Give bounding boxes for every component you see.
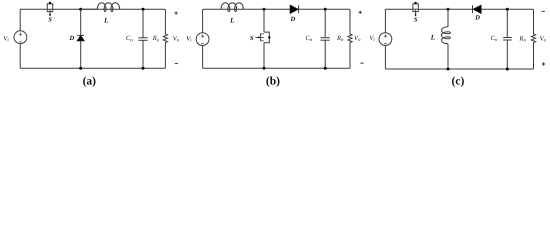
wire capacitor branch lower (b) xyxy=(324,40,326,68)
wire top rail (a) xyxy=(20,8,165,10)
wire diode branch lower (a) xyxy=(80,41,82,68)
node bottom of inductor branch (c) xyxy=(447,68,450,71)
capacitor Co (b) xyxy=(321,38,330,41)
wire right edge lower (a) xyxy=(164,43,166,69)
node junction top of capacitor (a) xyxy=(142,8,145,11)
diode D (a) xyxy=(77,35,84,40)
capacitor Co (a) xyxy=(138,38,147,41)
voltage source Vi (c) xyxy=(379,33,392,46)
wire inductor branch upper (c) xyxy=(447,9,449,27)
svg-text:S: S xyxy=(414,17,418,24)
node bottom of capacitor (a) xyxy=(142,67,145,70)
wire inductor branch lower (c) xyxy=(447,44,449,69)
voltage source Vi (b) xyxy=(196,33,209,46)
node bottom of capacitor (b) xyxy=(324,67,327,70)
label plus output (a) xyxy=(174,11,177,14)
mosfet S (c) xyxy=(412,2,419,17)
wire left branch lower (b) xyxy=(202,46,204,69)
diode D (b) xyxy=(290,5,298,13)
wire bottom rail (b) xyxy=(203,67,350,69)
wire right edge upper (c) xyxy=(533,9,535,34)
resistor Ro (c) xyxy=(531,34,535,43)
label minus output (a) xyxy=(175,63,178,65)
wire left branch lower (a) xyxy=(19,44,21,69)
node junction top of capacitor (b) xyxy=(324,8,327,11)
resistor Ro (a) xyxy=(163,34,167,43)
node junction top of diode (a) xyxy=(79,8,82,11)
node bottom of diode (a) xyxy=(79,67,82,70)
wire right edge lower (c) xyxy=(533,43,535,70)
wire left branch (c) xyxy=(384,9,386,33)
voltage source Vi (a) xyxy=(14,31,27,44)
inductor L (c) vertical xyxy=(442,27,451,44)
label plus output (b) xyxy=(359,11,362,14)
wire bottom rail (a) xyxy=(20,67,165,69)
label minus output (b) xyxy=(360,62,363,64)
label minus output (c) xyxy=(542,10,545,12)
inductor L (b) xyxy=(221,3,243,12)
wire capacitor branch lower (a) xyxy=(142,41,144,69)
resistor Ro (b) xyxy=(348,34,352,43)
wire capacitor branch upper (c) xyxy=(506,9,508,37)
source plus mark (a) xyxy=(19,33,22,36)
svg-text:(c): (c) xyxy=(452,75,465,87)
mosfet S (b) xyxy=(255,32,270,44)
svg-text:(a): (a) xyxy=(83,75,97,87)
source plus mark (c) xyxy=(384,35,387,38)
wire left branch (b) xyxy=(202,9,204,32)
wire diode branch upper (a) xyxy=(80,9,82,35)
source minus mark (a) xyxy=(19,41,22,43)
svg-text:L: L xyxy=(430,33,435,41)
svg-text:S: S xyxy=(250,35,254,42)
source minus mark (c) xyxy=(384,43,387,45)
wire left branch (a) xyxy=(19,9,21,31)
svg-text:L: L xyxy=(229,16,234,24)
diode D (c) xyxy=(473,5,482,13)
wire bottom rail (c) xyxy=(385,68,533,70)
svg-text:(b): (b) xyxy=(266,75,280,87)
wire right edge lower (b) xyxy=(349,43,351,69)
svg-text:D: D xyxy=(68,35,74,42)
wire switch branch lower (b) xyxy=(263,43,265,68)
capacitor Co (c) xyxy=(503,38,512,41)
source minus mark (b) xyxy=(201,43,204,45)
wire capacitor branch upper (a) xyxy=(142,9,144,37)
svg-text:S: S xyxy=(48,17,52,24)
wire left branch lower (c) xyxy=(384,46,386,70)
wire capacitor branch lower (c) xyxy=(506,40,508,69)
mosfet S (a) xyxy=(47,2,54,17)
wire top rail (c) xyxy=(385,8,533,10)
node bottom of capacitor (c) xyxy=(506,68,509,71)
wire right edge upper (b) xyxy=(349,9,351,34)
source plus mark (b) xyxy=(201,35,204,38)
node junction top of capacitor (c) xyxy=(506,8,509,11)
wire capacitor branch upper (b) xyxy=(324,9,326,37)
svg-text:D: D xyxy=(290,16,296,23)
node junction top of switch branch (b) xyxy=(263,8,266,11)
node bottom of switch branch (b) xyxy=(263,67,266,70)
wire right edge upper (a) xyxy=(164,9,166,34)
svg-text:D: D xyxy=(474,15,480,22)
wire top rail (b) xyxy=(203,8,350,10)
label plus output (c) xyxy=(542,62,545,65)
wire switch branch upper (b) xyxy=(263,9,265,32)
svg-text:L: L xyxy=(103,16,108,24)
inductor L (a) xyxy=(81,3,120,12)
node junction top of inductor branch (c) xyxy=(447,8,450,11)
